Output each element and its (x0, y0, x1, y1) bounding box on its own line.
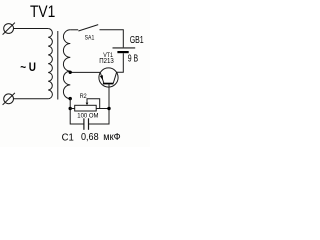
svg-text:С1: С1 (62, 131, 74, 143)
transistor VT1 body circle (99, 68, 118, 87)
primary winding of TV1 (left, 8 half-turns) (48, 29, 52, 99)
capacitor C1 plates (83, 118, 85, 130)
terminal X1 (top-left input) (3, 23, 15, 35)
wire secondary bottom down to R2 rail and C1 (70, 99, 84, 125)
terminal X2 (bottom-left input) (3, 93, 15, 105)
core of TV1 (57, 31, 59, 100)
transistor VT1 emitter (arrow to base, PNP) (100, 73, 104, 84)
svg-text:GB1: GB1 (130, 35, 144, 46)
node: base junction (107, 107, 110, 110)
wire switch to battery corner (100, 30, 124, 48)
switch SA1 (open arm) (78, 25, 98, 31)
node: R2 left junction (69, 107, 72, 110)
wire terminal X2 to primary bottom (13, 98, 48, 100)
resistor R2 body (75, 105, 97, 111)
svg-text:~ U: ~ U (20, 60, 36, 74)
wire secondary top to switch (70, 29, 78, 31)
resistor R2 leads (70, 108, 75, 110)
resistor R2 wiper arrow (87, 99, 100, 109)
svg-text:TV1: TV1 (30, 3, 55, 21)
svg-text:R2: R2 (80, 93, 87, 100)
battery GB1: positive long plate (113, 47, 136, 49)
svg-text:0,68: 0,68 (81, 132, 99, 143)
wire emitter to secondary tap (70, 71, 100, 73)
wire battery negative to collector (117, 53, 124, 72)
battery GB1: negative short plate (117, 51, 128, 53)
node: tap junction (69, 71, 72, 74)
secondary winding of TV1 (right, 5 half-turns, tapped) (63, 30, 70, 99)
svg-text:П213: П213 (99, 58, 114, 65)
wire terminal X1 to primary top (13, 28, 48, 30)
svg-text:мкФ: мкФ (103, 132, 120, 143)
transistor VT1 collector (113, 72, 116, 83)
transistor VT1 base bar (103, 83, 114, 85)
svg-text:SA1: SA1 (85, 34, 95, 41)
node: secondary bottom junction (69, 97, 72, 100)
wire base down to rail and C1 right (89, 84, 109, 124)
svg-text:9 В: 9 В (128, 54, 139, 65)
